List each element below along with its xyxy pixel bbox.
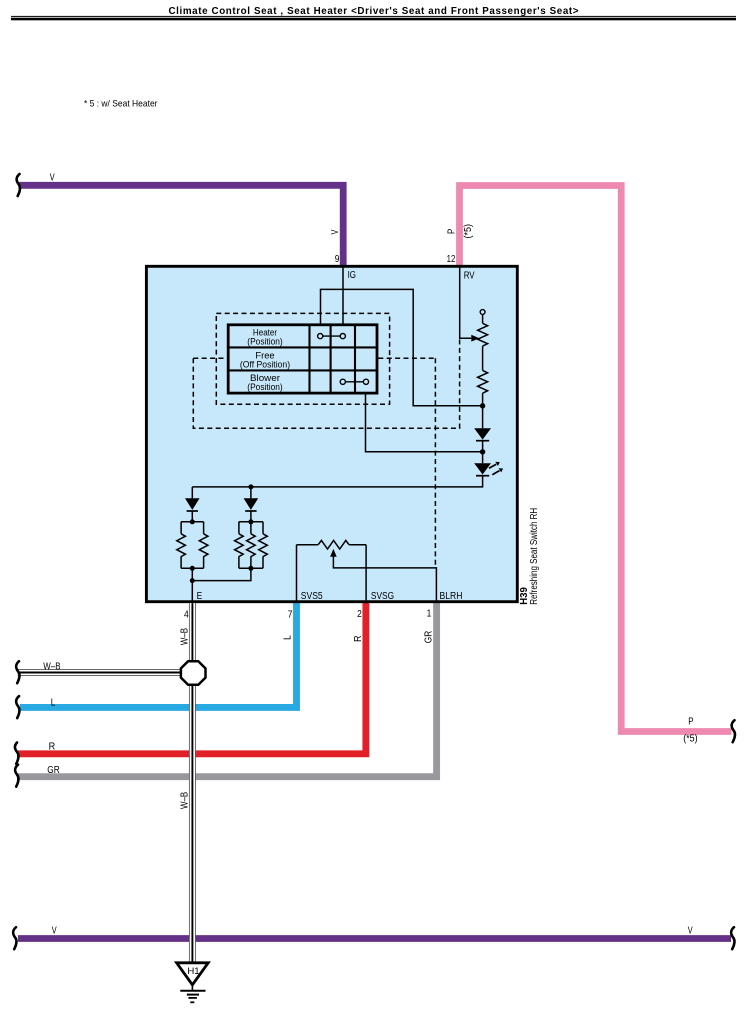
pot wiper to BLRH (333, 556, 436, 603)
svg-text:(Position): (Position) (247, 336, 282, 346)
lead between resistors (482, 346, 484, 370)
break symbol V bottom right (731, 927, 734, 949)
wire LED bottom rail (192, 476, 482, 487)
svg-text:R: R (353, 635, 364, 642)
wire W-B vertical (white w/ black stripe) (189, 603, 196, 962)
dashed linkage B top segments (193, 357, 435, 359)
svg-text:9: 9 (335, 254, 340, 265)
wire IG branch (321, 289, 483, 405)
dashed rect A around switch table (216, 313, 389, 404)
svg-text:GR: GR (424, 631, 435, 643)
junction dots unit2 (248, 519, 253, 524)
rheostat RV terminal circle (480, 310, 485, 315)
svg-text:IG: IG (348, 270, 357, 281)
svg-text:H1: H1 (187, 966, 199, 977)
ground H1 triangle (177, 963, 209, 985)
title thick rule (11, 18, 736, 21)
wire P (pink) (460, 186, 732, 732)
wire W-B horizontal (white w/ black stripe) (18, 669, 194, 676)
svg-text:* 5 : w/ Seat Heater: * 5 : w/ Seat Heater (84, 98, 158, 108)
svg-text:L: L (51, 697, 56, 708)
wire V top (violet) (19, 185, 344, 266)
wire GR (gray) (17, 603, 437, 777)
blower contact bar (343, 381, 366, 383)
junction dots unit1 (190, 519, 195, 524)
title thin rule (11, 16, 736, 17)
svg-text:SVSG: SVSG (371, 591, 394, 602)
svg-text:(*5): (*5) (683, 733, 698, 744)
connector box H39 (146, 266, 517, 601)
wire R (red) (17, 603, 366, 754)
svg-text:V: V (52, 925, 57, 936)
svg-text:1: 1 (427, 609, 432, 620)
splice octagon (181, 661, 206, 685)
wiper arrowhead RV (471, 335, 479, 342)
wire E internal (191, 568, 193, 603)
svg-text:W–B: W–B (180, 792, 191, 809)
svg-text:Climate Control Seat , Seat He: Climate Control Seat , Seat Heater <Driv… (169, 6, 579, 17)
switch table (228, 325, 377, 393)
svg-text:P: P (446, 228, 457, 234)
svg-text:R: R (49, 741, 56, 752)
break symbol L (16, 696, 19, 718)
break symbol W-B (16, 661, 19, 683)
wire RV internal (460, 267, 473, 338)
svg-text:V: V (330, 229, 341, 234)
svg-text:W–B: W–B (43, 662, 60, 673)
LED D2 arrows (489, 464, 500, 475)
svg-text:BLRH: BLRH (440, 591, 463, 602)
lead to junction (482, 393, 484, 428)
svg-text:7: 7 (288, 609, 293, 620)
break symbol V top (17, 174, 20, 196)
svg-text:12: 12 (447, 254, 456, 265)
svg-text:V: V (50, 172, 55, 183)
svg-text:W–B: W–B (180, 628, 191, 645)
ground bars (180, 990, 205, 992)
diode D4 (250, 487, 252, 498)
wire IG internal (342, 267, 344, 325)
wire V bottom (violet) (18, 935, 731, 942)
junction dot (480, 403, 485, 408)
svg-text:RV: RV (464, 271, 475, 282)
diode D1 (474, 428, 491, 439)
svg-text:V: V (688, 925, 693, 936)
resistor below RV (478, 370, 488, 393)
svg-text:E: E (197, 591, 203, 602)
break symbol R (15, 743, 19, 764)
wire unit2 to E (192, 568, 251, 580)
svg-text:(Off Position): (Off Position) (240, 359, 290, 369)
break symbol GR (15, 765, 18, 787)
svg-text:SVS5: SVS5 (301, 591, 323, 602)
LED D2 (474, 463, 491, 474)
rheostat RV lead (482, 314, 484, 323)
dashed linkage B left/bottom/right (193, 339, 459, 428)
wire SVSG internal (365, 545, 367, 603)
heater contact circles (318, 334, 323, 339)
svg-text:4: 4 (184, 609, 189, 620)
wire blower contact to LED junction (366, 393, 483, 452)
svg-text:L: L (283, 635, 294, 640)
svg-text:(Position): (Position) (247, 382, 282, 392)
ground stub (191, 985, 193, 991)
wire SVS5 internal (296, 545, 298, 603)
heater contact bar (320, 335, 343, 337)
resistor pair R1 (181, 522, 204, 569)
potentiometer SVS5/SVSG (297, 544, 319, 546)
svg-text:Refreshing Seat Switch RH: Refreshing Seat Switch RH (529, 508, 540, 605)
svg-text:(*5): (*5) (463, 224, 474, 239)
blower contact circles (340, 379, 345, 384)
wire L (blue) (20, 603, 297, 707)
svg-text:GR: GR (47, 765, 59, 776)
junction dot (480, 449, 485, 454)
diode D3 (191, 487, 193, 498)
resistor triple R2 (239, 522, 263, 569)
rheostat RV zigzag (478, 323, 488, 346)
svg-text:2: 2 (357, 609, 362, 620)
svg-text:P: P (688, 716, 694, 727)
break symbol V bottom left (13, 927, 16, 949)
dashed linkage to BLRH wiper (434, 358, 436, 568)
break symbol P right (732, 720, 735, 742)
